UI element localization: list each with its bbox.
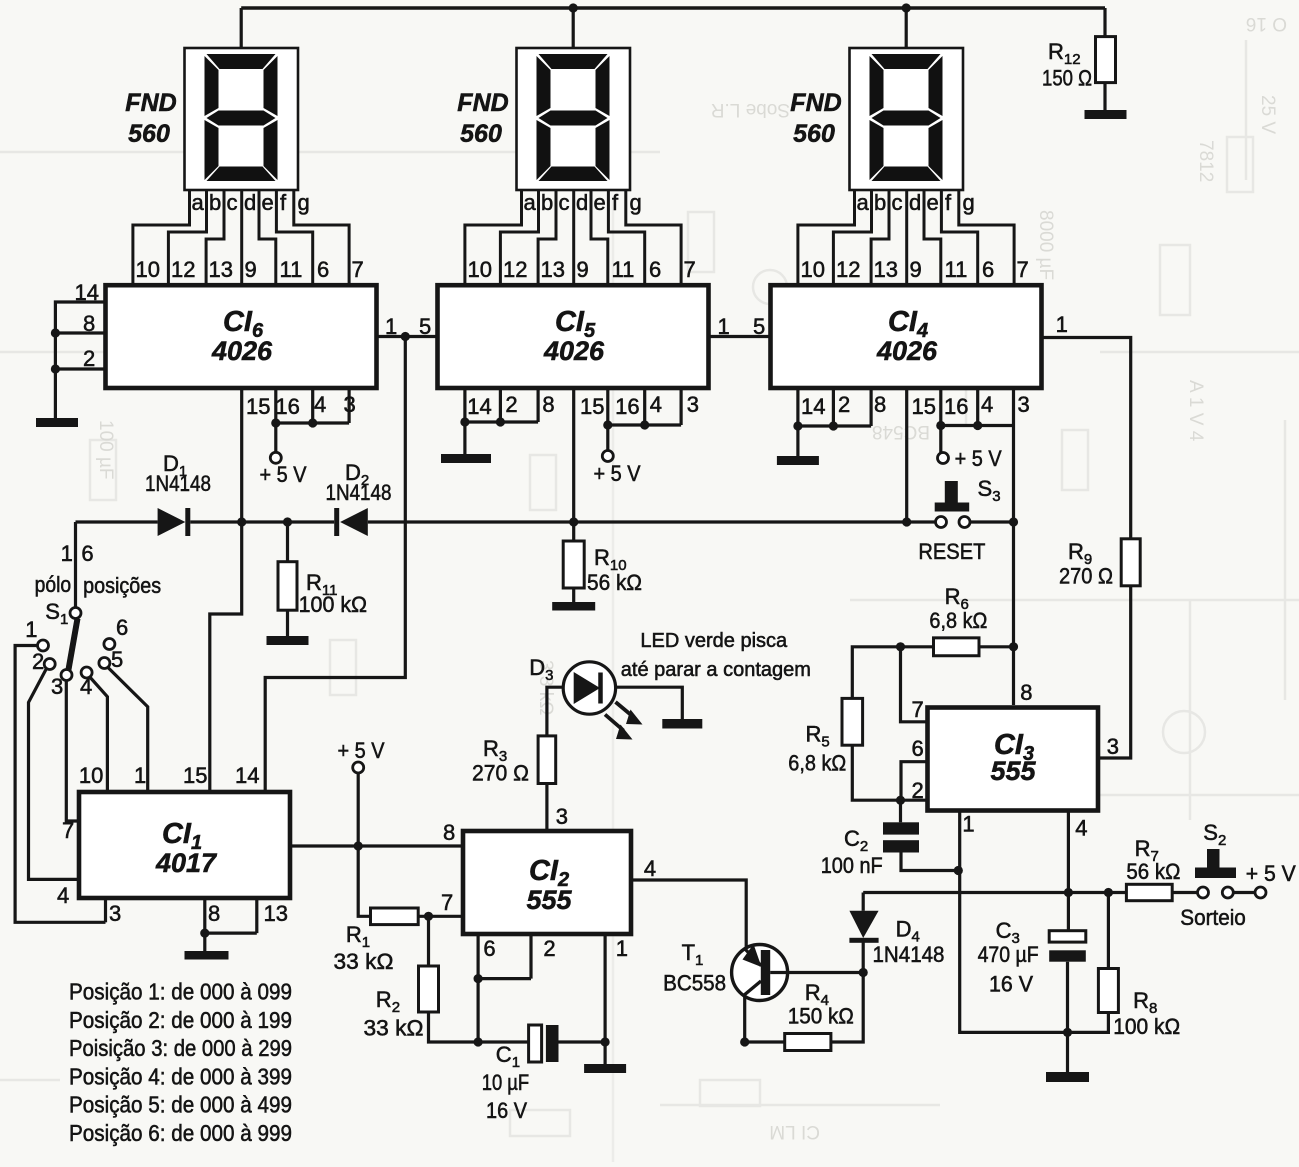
svg-text:56 kΩ: 56 kΩ [587, 570, 642, 595]
svg-text:14: 14 [75, 280, 99, 305]
svg-text:8: 8 [542, 392, 554, 417]
wire pin6 node down [477, 979, 480, 1042]
ground CI4 [777, 456, 819, 465]
wire R1 to CI2 pin7 [418, 915, 463, 918]
svg-text:8: 8 [83, 311, 95, 336]
wire to R11 [286, 522, 289, 562]
wire CI6 pin2 [55, 367, 104, 370]
wire CI3 pin4 down [1067, 810, 1070, 893]
wire to ground [463, 422, 466, 454]
junction pin16 [603, 420, 612, 429]
wire CI2 pin4 to T1 emitter [629, 880, 746, 948]
svg-text:15: 15 [580, 394, 604, 419]
ground LED [662, 719, 702, 729]
resistor R4 [785, 1034, 831, 1051]
wire R12 to ground [1103, 83, 1106, 110]
IC CI3 555 timer [928, 708, 1099, 811]
diode D4 1N4148 [862, 942, 865, 972]
svg-text:3: 3 [1018, 392, 1030, 417]
svg-text:15: 15 [183, 763, 207, 788]
wire to ground [203, 933, 206, 951]
svg-text:Sobe L.R: Sobe L.R [711, 99, 790, 120]
svg-text:3: 3 [687, 392, 699, 417]
wire pole up to diode line [74, 522, 77, 607]
wire R3 to LED D3 [547, 687, 563, 736]
svg-text:16 V: 16 V [486, 1098, 527, 1123]
junction R8 [1104, 888, 1113, 897]
wire CI2 pin1 down [603, 933, 606, 1042]
wire D4 to reset line [862, 893, 865, 911]
svg-text:4026: 4026 [211, 336, 273, 366]
wire CI6 pin14 to ground rail [55, 302, 104, 418]
svg-text:7: 7 [62, 818, 74, 843]
wire CI6 pin8 [55, 331, 104, 334]
svg-text:25 V: 25 V [1257, 95, 1278, 134]
wire to ground [796, 426, 799, 456]
junction clock node [401, 332, 410, 341]
diode D2 1N4148 [334, 508, 339, 536]
svg-text:470 µF: 470 µF [978, 942, 1039, 967]
ground CI1 [185, 951, 229, 960]
svg-text:14: 14 [235, 763, 259, 788]
svg-text:14: 14 [467, 394, 491, 419]
wire S1 pole to D1 [76, 520, 158, 523]
wire CI5 pin15 down [572, 388, 575, 521]
diode D1 1N4148 [158, 508, 186, 536]
junction pin1/ground [601, 1037, 610, 1046]
display DISP1 FND 560 (7-segment) [125, 8, 363, 284]
wire D4 node to R7 [863, 891, 1126, 894]
junction CI6 pin15 [237, 517, 246, 526]
wire D2 to RESET switch [368, 520, 936, 523]
svg-text:10: 10 [79, 763, 103, 788]
wire bus to R12 [1103, 8, 1106, 37]
terminal +5V (CI2) [353, 762, 364, 773]
svg-text:Posição 4: de 000 à 399: Posição 4: de 000 à 399 [69, 1063, 292, 1089]
svg-text:1: 1 [962, 812, 974, 837]
LED D3 (green) [563, 662, 615, 714]
wire to R8 [1107, 893, 1110, 969]
junction C2/pin1 [954, 866, 963, 875]
wire to R10 [572, 521, 575, 541]
ground under R10 [552, 602, 595, 611]
terminal +5V (CI4) [938, 453, 949, 464]
svg-text:555: 555 [526, 885, 572, 915]
wire +5V to R1 [358, 846, 370, 916]
wire to ground [603, 1042, 606, 1064]
svg-text:270 Ω: 270 Ω [1059, 564, 1113, 589]
wire CI3 pin1 ground bus [960, 810, 1109, 1032]
wire contact4 to CI1 pin10 [90, 677, 108, 790]
svg-text:CI LM: CI LM [769, 1121, 820, 1142]
svg-text:6,8 kΩ: 6,8 kΩ [929, 608, 987, 633]
svg-text:15: 15 [912, 394, 936, 419]
svg-text:LED verde pisca: LED verde pisca [640, 630, 788, 652]
ground CI6 left [36, 418, 78, 427]
svg-text:+ 5 V: + 5 V [260, 462, 307, 487]
wire contact1 to CI1 pin3 [15, 646, 105, 923]
svg-text:6: 6 [483, 936, 495, 961]
wire CI6 pin15 to CI1 pin15 [210, 388, 242, 790]
resistor R11 [278, 562, 297, 611]
wire CI1 pins 8,13 tie [205, 898, 257, 933]
wire R11 to ground [286, 610, 289, 636]
svg-text:RESET: RESET [918, 539, 985, 564]
wire +5V top bus [241, 6, 1105, 9]
svg-text:4: 4 [650, 392, 662, 417]
contact 4 [81, 667, 92, 678]
wire to +5V terminal [274, 423, 277, 452]
svg-text:4026: 4026 [543, 336, 605, 366]
svg-text:até parar a contagem: até parar a contagem [621, 659, 811, 681]
lever S1 [69, 619, 78, 670]
svg-text:Posição 5: de 000 à 499: Posição 5: de 000 à 499 [69, 1092, 292, 1118]
wire LED to ground [616, 687, 683, 719]
svg-text:A 1 V 4: A 1 V 4 [1185, 380, 1206, 442]
wire clock node to CI1 pin14 [265, 337, 405, 791]
wire R2 to C1 node [429, 1012, 479, 1042]
junction pin14 [793, 421, 802, 430]
contact 1 [38, 640, 49, 651]
wire to CI3 pin7 [901, 647, 928, 722]
svg-text:8: 8 [874, 392, 886, 417]
svg-text:3: 3 [51, 674, 63, 699]
svg-text:1: 1 [1056, 312, 1068, 337]
svg-text:BC558: BC558 [663, 971, 726, 996]
IC CI5 4026 counter [438, 285, 709, 388]
wire T1 collector down [743, 997, 746, 1043]
ground under R12 [1085, 110, 1127, 119]
wire R6 to pin8 line [979, 645, 1014, 648]
svg-text:5: 5 [419, 314, 431, 339]
wire S3 to CI4 pin3 line [970, 520, 1014, 523]
terminal +5V (CI5) [602, 451, 613, 462]
wire R4 up to base node [831, 973, 863, 1043]
svg-text:8: 8 [208, 901, 220, 926]
svg-text:16: 16 [944, 394, 968, 419]
svg-text:6: 6 [912, 736, 924, 761]
svg-text:3: 3 [109, 901, 121, 926]
svg-text:2: 2 [83, 346, 95, 371]
svg-text:4: 4 [644, 856, 656, 881]
svg-text:4: 4 [314, 392, 326, 417]
svg-text:5: 5 [753, 314, 765, 339]
junction pin2 [496, 417, 505, 426]
CI5 bottom pin wires 14,2,8 to ground [465, 388, 538, 422]
svg-text:4: 4 [57, 883, 69, 908]
svg-text:Posição 6: de 000 à 999: Posição 6: de 000 à 999 [69, 1120, 292, 1146]
wire CI2 pin3 to R3 [545, 784, 548, 832]
svg-text:O 16: O 16 [1246, 13, 1287, 34]
wire CI3 pin6 tie [901, 762, 927, 801]
CI4 bottom pin wires 16,4,3 [941, 388, 1014, 426]
svg-text:1N4148: 1N4148 [326, 480, 392, 505]
wire CI6 pins 16,4,3 tie [276, 388, 349, 423]
CI4 bottom pin wires 14,2,8 to ground [798, 388, 871, 426]
svg-text:4026: 4026 [876, 336, 938, 366]
pole contact S1 [70, 608, 81, 619]
contact S2 right [1222, 887, 1233, 898]
wire D1 to D2 [190, 520, 334, 523]
wire CI4 pin15 to RESET line [905, 388, 908, 521]
svg-text:56 kΩ: 56 kΩ [1126, 859, 1180, 884]
ground CI5 [441, 454, 491, 463]
junction pin2 [829, 421, 838, 430]
svg-text:555: 555 [990, 756, 1036, 786]
svg-text:33 kΩ: 33 kΩ [364, 1016, 424, 1041]
wire to R2 [427, 916, 430, 966]
svg-text:8: 8 [1020, 680, 1032, 705]
junction C1 node [474, 1037, 483, 1046]
svg-text:pólo: pólo [35, 572, 72, 597]
junction pin8 [51, 328, 60, 337]
capacitor C3 470uF electrolytic [1067, 893, 1070, 931]
resistor R2 [419, 966, 439, 1012]
svg-text:7812: 7812 [1195, 140, 1216, 182]
svg-text:posições: posições [83, 573, 161, 598]
resistor R10 [563, 541, 584, 588]
wire to ground [1066, 1032, 1069, 1072]
ground CI3 area [1046, 1072, 1089, 1082]
CI5 bottom pin wires 16,4,3 [608, 388, 681, 425]
contact 3 [61, 670, 72, 681]
IC CI1 4017 decade counter [79, 792, 290, 898]
wire contact3 to CI1 pin7 [66, 681, 79, 822]
svg-text:8000 µF: 8000 µF [1035, 210, 1056, 280]
svg-text:Posição 2: de 000 à 199: Posição 2: de 000 à 199 [69, 1007, 292, 1033]
capacitor C1 10uF electrolytic [478, 1040, 528, 1043]
svg-text:8: 8 [443, 820, 455, 845]
svg-text:5: 5 [111, 647, 123, 672]
ground CI2 [584, 1064, 626, 1073]
resistor R8 [1098, 969, 1118, 1013]
terminal +5V (S2) [1255, 887, 1266, 898]
wire to +5V terminal [606, 425, 609, 451]
contact 2 [44, 659, 55, 670]
junction +5V feed [354, 841, 363, 850]
svg-text:2: 2 [505, 392, 517, 417]
contact S2 left [1198, 887, 1209, 898]
junction R6/R5/pin7 [896, 642, 905, 651]
svg-text:4017: 4017 [155, 848, 218, 878]
wire R7 to S2 [1172, 891, 1197, 894]
junction pin4 [308, 418, 317, 427]
svg-text:1: 1 [616, 936, 628, 961]
contact 6 [104, 639, 115, 650]
junction pin4 [973, 421, 982, 430]
junction display 2 feed [569, 3, 578, 12]
junction R11 [283, 517, 292, 526]
wire contact5 to CI1 pin1 [109, 668, 148, 790]
wire CI6 pin1 to CI5 pin5 [377, 335, 437, 338]
svg-text:100 nF: 100 nF [821, 853, 883, 878]
svg-text:3: 3 [1107, 734, 1119, 759]
wire to R4 [745, 1040, 785, 1043]
svg-text:1: 1 [134, 763, 146, 788]
capacitor C2 100nF [899, 800, 902, 822]
junction collector [740, 1037, 749, 1046]
svg-text:1: 1 [25, 617, 37, 642]
svg-text:33 kΩ: 33 kΩ [334, 949, 394, 974]
svg-text:6,8 kΩ: 6,8 kΩ [788, 751, 846, 776]
svg-text:100 µF: 100 µF [95, 420, 116, 480]
IC CI2 555 timer [463, 831, 631, 934]
wire C1 to pin1 node [559, 1040, 606, 1043]
svg-text:2: 2 [543, 936, 555, 961]
svg-text:16: 16 [275, 394, 299, 419]
svg-text:14: 14 [801, 394, 825, 419]
svg-text:1: 1 [718, 314, 730, 339]
wire R9 to CI3 pin3 [1098, 586, 1131, 758]
resistor R6 [934, 638, 980, 656]
wire to R6 [901, 645, 934, 648]
contact S3 left [936, 517, 947, 528]
wire C2 to ground line [901, 853, 958, 871]
svg-text:6: 6 [116, 615, 128, 640]
resistor R9 [1121, 539, 1140, 586]
wire T1 base to D4 node [770, 971, 863, 974]
wire CI5 pin1 to CI4 pin5 [709, 335, 770, 338]
svg-text:1: 1 [385, 314, 397, 339]
svg-text:100 kΩ: 100 kΩ [299, 592, 368, 617]
svg-text:4: 4 [981, 392, 993, 417]
svg-text:BC548: BC548 [872, 421, 930, 442]
svg-text:15: 15 [246, 394, 270, 419]
junction CI5 pin15 / R10 [569, 517, 578, 526]
contact S3 right [959, 517, 970, 528]
wire to +5V terminal [357, 773, 360, 846]
contact 5 [99, 658, 110, 669]
svg-text:16 V: 16 V [989, 972, 1033, 997]
IC CI6 4026 counter [106, 285, 377, 388]
junction pin16 [271, 418, 280, 427]
transistor T1 BC558 (PNP) [732, 945, 788, 1001]
svg-text:+ 5 V: + 5 V [594, 461, 641, 486]
junction base/D4 [859, 968, 868, 977]
svg-text:1: 1 [61, 541, 73, 566]
wire contact2 to CI1 pin4 [29, 668, 80, 879]
svg-text:3: 3 [344, 392, 356, 417]
svg-text:2: 2 [32, 649, 44, 674]
svg-text:+ 5 V: + 5 V [955, 446, 1002, 471]
resistor R5 [842, 698, 863, 745]
junction pin7/R2 [424, 912, 433, 921]
ground under R11 [267, 636, 309, 645]
svg-text:Sorteio: Sorteio [1180, 905, 1246, 930]
svg-text:16: 16 [615, 394, 639, 419]
svg-text:150 kΩ: 150 kΩ [788, 1004, 854, 1029]
svg-text:Poisição 3: de 000 à 299: Poisição 3: de 000 à 299 [69, 1035, 292, 1061]
junction pin4 [640, 420, 649, 429]
svg-text:13: 13 [264, 901, 288, 926]
svg-text:7: 7 [441, 890, 453, 915]
junction display 3 feed [902, 3, 911, 12]
wire R5 to pin2/6 node [852, 745, 900, 800]
junction pin16 [936, 421, 945, 430]
svg-text:4: 4 [1075, 816, 1087, 841]
junction reset node [1009, 517, 1018, 526]
svg-text:+ 5 V: + 5 V [338, 738, 385, 763]
wire CI2 pins 6,2 tie [478, 933, 531, 979]
svg-text:1N4148: 1N4148 [873, 942, 945, 967]
IC CI4 4026 counter [771, 285, 1042, 388]
svg-text:3: 3 [556, 804, 568, 829]
resistor R1 [371, 908, 419, 925]
svg-text:270 Ω: 270 Ω [472, 761, 529, 786]
junction R6/pin8 [1009, 642, 1018, 651]
svg-text:6: 6 [81, 541, 93, 566]
wire CI4 pin1 to R9 [1042, 338, 1131, 539]
display DISP3 FND 560 (7-segment) [790, 8, 1028, 284]
wire CI1 pin3 stub [104, 898, 107, 922]
junction CI4 pin15 [902, 517, 911, 526]
junction pin2/6/C2 [896, 796, 905, 805]
resistor R3 [538, 736, 556, 784]
junction C3/ground [1063, 1028, 1072, 1037]
terminal +5V (CI6) [270, 452, 281, 463]
wire S2 to +5V terminal [1233, 891, 1254, 894]
svg-text:150 Ω: 150 Ω [1042, 66, 1092, 91]
junction pin4 [1064, 888, 1073, 897]
resistor R12 [1096, 37, 1116, 83]
svg-text:+ 5 V: + 5 V [1246, 861, 1296, 886]
wire CI1 out to CI2 pin8 [289, 844, 461, 847]
svg-text:100 kΩ: 100 kΩ [1113, 1014, 1180, 1039]
wire CI3 pin2 stub [901, 799, 928, 802]
junction pin14 [460, 417, 469, 426]
wire C3 to ground bus [1066, 962, 1069, 1033]
svg-text:7: 7 [912, 697, 924, 722]
wire R10 to ground [572, 588, 575, 602]
resistor R7 [1126, 884, 1172, 900]
svg-text:1N4148: 1N4148 [145, 471, 211, 496]
junction pin8/13 [200, 929, 209, 938]
display DISP2 FND 560 (7-segment) [457, 8, 695, 284]
wire CI4 pin3 down to CI3 pin8 [1012, 426, 1015, 706]
svg-text:2: 2 [838, 392, 850, 417]
svg-text:10 µF: 10 µF [482, 1070, 530, 1095]
svg-text:Posição 1: de 000 à 099: Posição 1: de 000 à 099 [69, 979, 292, 1005]
junction pin6/2 [474, 974, 483, 983]
wire to +5V terminal [939, 426, 942, 453]
junction pin2 [51, 364, 60, 373]
wire to R5 [852, 647, 900, 699]
LED arrows [605, 702, 634, 731]
